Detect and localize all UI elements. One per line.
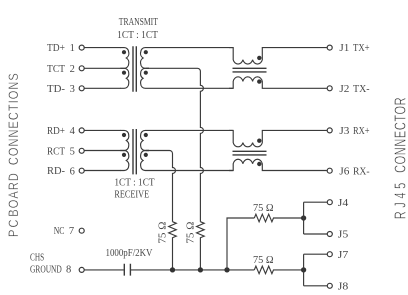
svg-text:TCT: TCT (47, 64, 66, 75)
svg-text:RX+: RX+ (353, 126, 370, 137)
pin 4 terminal RD+ (79, 128, 84, 133)
J4 terminal (327, 200, 332, 205)
svg-text:J3: J3 (339, 126, 349, 137)
T1 secondary phase dot (bottom) (144, 71, 148, 75)
svg-text:RD+: RD+ (47, 126, 65, 137)
J5 terminal (327, 232, 332, 237)
svg-text:75 Ω: 75 Ω (157, 221, 168, 243)
transformer T2 primary winding (121, 130, 129, 150)
L2 bottom winding + wire to J6 (229, 159, 327, 170)
T2 primary phase dot (bottom) (122, 153, 126, 157)
svg-text:J2: J2 (339, 84, 349, 95)
svg-text:1CT : 1CT: 1CT : 1CT (117, 30, 158, 41)
svg-text:GROUND: GROUND (30, 265, 62, 276)
wire pin1 to T1 primary (84, 47, 121, 49)
svg-text:1: 1 (70, 43, 75, 54)
svg-text:J5: J5 (338, 230, 349, 241)
T1 secondary winding (141, 48, 233, 69)
L2 bottom phase dot (257, 162, 261, 166)
wire pin5 to T2 primary (center tap) (84, 150, 121, 152)
resistor R4 75 ohm (to J7/J8) (254, 266, 303, 274)
svg-text:J7: J7 (338, 250, 349, 261)
wire T2 secondary center tap to R1 (with hop over row 6) (146, 151, 176, 222)
J8 terminal (327, 283, 332, 288)
svg-text:8: 8 (66, 265, 71, 276)
svg-text:CHS: CHS (30, 253, 44, 264)
svg-text:J8: J8 (338, 281, 349, 292)
T2 secondary phase dot (bottom) (144, 153, 148, 157)
capacitor C1 plates (124, 264, 130, 276)
svg-text:NC: NC (54, 226, 65, 237)
common-mode choke L2 top winding + wire to J3 (229, 130, 327, 146)
T1 primary phase dot (bottom) (122, 71, 126, 75)
wire branch up to R3 (227, 218, 254, 270)
T1 secondary phase dot (top) (144, 50, 148, 54)
L1 bottom phase dot (257, 79, 261, 83)
wire pin8 to capacitor C1 (84, 269, 123, 271)
pin 8 terminal CHS GROUND (79, 267, 84, 272)
junction node bus/R3 branch (224, 267, 229, 272)
L1 top phase dot (257, 56, 261, 60)
ground bus wire (C1 to R4) (131, 269, 254, 271)
svg-text:TRANSMIT: TRANSMIT (119, 17, 159, 28)
svg-text:CONNECTIONS: CONNECTIONS (6, 73, 22, 165)
T2 core (133, 129, 136, 174)
svg-text:7: 7 (69, 226, 74, 237)
pin 6 terminal RD- (79, 168, 84, 173)
svg-text:RCT: RCT (47, 146, 66, 157)
L2 core (233, 151, 267, 155)
svg-text:J4: J4 (338, 198, 349, 209)
wire tee to J4 and J5 (304, 202, 328, 234)
svg-text:4: 4 (70, 126, 76, 137)
resistor R2 75 ohm (vertical) (197, 222, 205, 270)
svg-text:CONNECTOR: CONNECTOR (391, 97, 408, 173)
pin 3 terminal TD- (79, 86, 84, 91)
svg-text:3: 3 (70, 84, 75, 95)
junction node R1/bus (170, 267, 175, 272)
svg-text:6: 6 (70, 166, 75, 177)
J6 terminal RX- (327, 168, 332, 173)
transformer T1 primary winding (121, 48, 129, 69)
wire pin2 to T1 primary (center tap) (84, 67, 121, 69)
common-mode choke L1 top winding + wire to J1 (229, 48, 327, 64)
svg-text:J1: J1 (339, 43, 349, 54)
svg-text:5: 5 (70, 147, 75, 158)
svg-text:75 Ω: 75 Ω (253, 203, 274, 214)
svg-text:RD-: RD- (47, 166, 65, 177)
pin 7 terminal NC (79, 228, 84, 233)
svg-text:75 Ω: 75 Ω (185, 221, 196, 243)
pin 2 terminal TCT (79, 66, 84, 71)
svg-text:TX-: TX- (353, 84, 370, 95)
wire pin4 to T2 primary (84, 129, 121, 131)
pin 1 terminal TD+ (79, 45, 84, 50)
junction node R3/J4/J5 (301, 215, 306, 220)
J2 terminal TX- (327, 86, 332, 91)
L1 bottom winding + wire to J2 (229, 77, 327, 88)
resistor R3 75 ohm (to J4/J5) (254, 214, 303, 222)
T1 primary phase dot (top) (122, 50, 126, 54)
J1 terminal TX+ (327, 45, 332, 50)
resistor R1 75 ohm (vertical) (169, 222, 177, 270)
svg-text:1000pF/2KV: 1000pF/2KV (106, 248, 153, 259)
T2 primary phase dot (top) (122, 133, 126, 137)
svg-text:TD+: TD+ (47, 43, 65, 54)
junction node R2/bus (198, 267, 203, 272)
svg-text:J6: J6 (339, 167, 349, 178)
svg-text:BOARD: BOARD (6, 173, 22, 217)
wire tee to J7 and J8 (304, 254, 328, 286)
svg-text:TD-: TD- (47, 84, 66, 95)
pin 5 terminal RCT (79, 148, 84, 153)
wire T1 secondary center tap to R2 (with hops over rows 3,4,6) (146, 68, 203, 221)
svg-text:1CT : 1CT: 1CT : 1CT (114, 178, 155, 189)
J7 terminal (327, 252, 332, 257)
J3 terminal RX+ (327, 128, 332, 133)
L2 top phase dot (257, 139, 261, 143)
T2 secondary phase dot (top) (144, 133, 148, 137)
junction node R4/J7/J8 (301, 267, 306, 272)
svg-text:75 Ω: 75 Ω (253, 255, 274, 266)
svg-text:TX+: TX+ (353, 43, 370, 54)
T2 secondary winding (141, 130, 233, 150)
svg-text:RECEIVE: RECEIVE (114, 189, 149, 200)
svg-text:2: 2 (70, 64, 75, 75)
L1 core (233, 68, 267, 72)
wire pin3 to T1 primary (84, 87, 121, 89)
wire pin6 to T2 primary (84, 170, 121, 172)
T1 core (133, 46, 136, 92)
svg-text:RX-: RX- (353, 167, 370, 178)
